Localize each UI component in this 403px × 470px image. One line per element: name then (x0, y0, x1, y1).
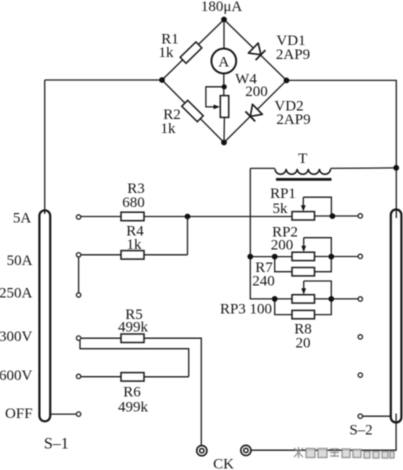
svg-text:2AP9: 2AP9 (276, 112, 310, 128)
resistor R5 (81, 334, 202, 446)
resistor R1 (180, 42, 202, 63)
wire bridge lower-right branch (224, 80, 287, 142)
contact S-2 row4 (358, 335, 362, 339)
potentiometer RP1 (292, 197, 358, 220)
svg-text:S–1: S–1 (44, 435, 69, 452)
terminal CK left (197, 446, 207, 456)
resistor R8 (275, 299, 332, 319)
contact 5A (76, 215, 80, 219)
wire left rail (44, 80, 46, 214)
potentiometer RP3 (292, 281, 358, 303)
svg-text:20: 20 (296, 335, 311, 351)
wire RP2 tap (250, 256, 292, 258)
watermark (294, 447, 394, 458)
svg-text:RP1: RP1 (270, 186, 296, 202)
wire top-left horizontal (45, 79, 162, 81)
contact 600V (76, 374, 80, 378)
switch S-1 wiper (39, 210, 76, 421)
svg-text:5k: 5k (273, 201, 289, 217)
svg-text:1k: 1k (127, 237, 143, 253)
diode VD2 (245, 104, 262, 121)
wire bridge lower-left branch (162, 80, 224, 143)
contact OFF (76, 412, 80, 416)
node bridge right junction (284, 78, 290, 84)
svg-text:200: 200 (271, 238, 294, 254)
svg-text:240: 240 (252, 274, 275, 290)
svg-text:600V: 600V (0, 368, 32, 384)
svg-text:1k: 1k (161, 121, 177, 137)
node R8 left junction (272, 296, 278, 302)
contact S-2 row3 (358, 297, 362, 301)
wire transformer left drop (250, 168, 292, 299)
svg-text:A: A (218, 54, 229, 70)
contact 50A (76, 253, 80, 257)
svg-text:S–2: S–2 (349, 423, 372, 439)
svg-text:T: T (298, 151, 307, 167)
wire R3 row to RP1 (81, 216, 292, 218)
terminal CK right (241, 445, 251, 455)
resistor R2 (182, 100, 203, 121)
contact S-2 row6 (358, 414, 362, 418)
potentiometer RP2 (292, 238, 358, 261)
svg-text:CK: CK (213, 457, 234, 470)
node W4 wiper junction (222, 84, 227, 89)
svg-text:180μA: 180μA (201, 0, 243, 15)
node bridge left junction (159, 77, 165, 83)
svg-text:200: 200 (245, 84, 268, 100)
svg-text:2AP9: 2AP9 (276, 47, 310, 63)
resistor R4 (81, 217, 188, 260)
transformer T (250, 168, 396, 180)
contact 250A (76, 293, 80, 297)
svg-text:1k: 1k (159, 45, 175, 61)
wire bridge upper-right branch (224, 20, 287, 81)
node RP3 output junction (328, 296, 334, 302)
svg-text:OFF: OFF (5, 406, 33, 422)
resistor R3 (121, 212, 144, 221)
node R3 junction (185, 214, 191, 220)
wire meter vertical (223, 20, 226, 143)
diode VD1 (248, 43, 265, 60)
node RP2 output junction (328, 254, 334, 260)
svg-text:50A: 50A (7, 253, 33, 269)
node RP2 left tap (247, 254, 253, 260)
svg-text:R6: R6 (123, 385, 141, 401)
wire 300V to R6 link (80, 340, 189, 376)
node RP1 output junction (330, 213, 336, 219)
svg-text:5A: 5A (13, 211, 32, 227)
wire bridge upper-left branch (162, 20, 224, 81)
resistor R6 (81, 373, 189, 382)
contact 300V (76, 336, 80, 340)
node right rail junction (393, 165, 399, 171)
node bridge bottom junction (221, 140, 227, 146)
svg-text:680: 680 (122, 195, 145, 211)
svg-text:499k: 499k (118, 400, 149, 416)
svg-text:499k: 499k (118, 320, 149, 336)
node bridge top junction (221, 17, 227, 23)
wire right rail (287, 80, 397, 218)
node R7 left junction (272, 254, 278, 260)
contact S-2 row5 (358, 373, 362, 377)
resistor R7 (275, 257, 332, 276)
switch S-2 wiper (251, 210, 401, 451)
potentiometer W4 (206, 87, 229, 118)
wire 50A-250A link (78, 257, 80, 293)
contact S-2 row1 (358, 214, 362, 218)
svg-text:300V: 300V (0, 329, 32, 345)
ammeter meter A (211, 49, 236, 74)
svg-text:250A: 250A (0, 286, 32, 302)
svg-text:RP3 100: RP3 100 (220, 301, 272, 317)
contact S-2 row2 (358, 254, 362, 258)
